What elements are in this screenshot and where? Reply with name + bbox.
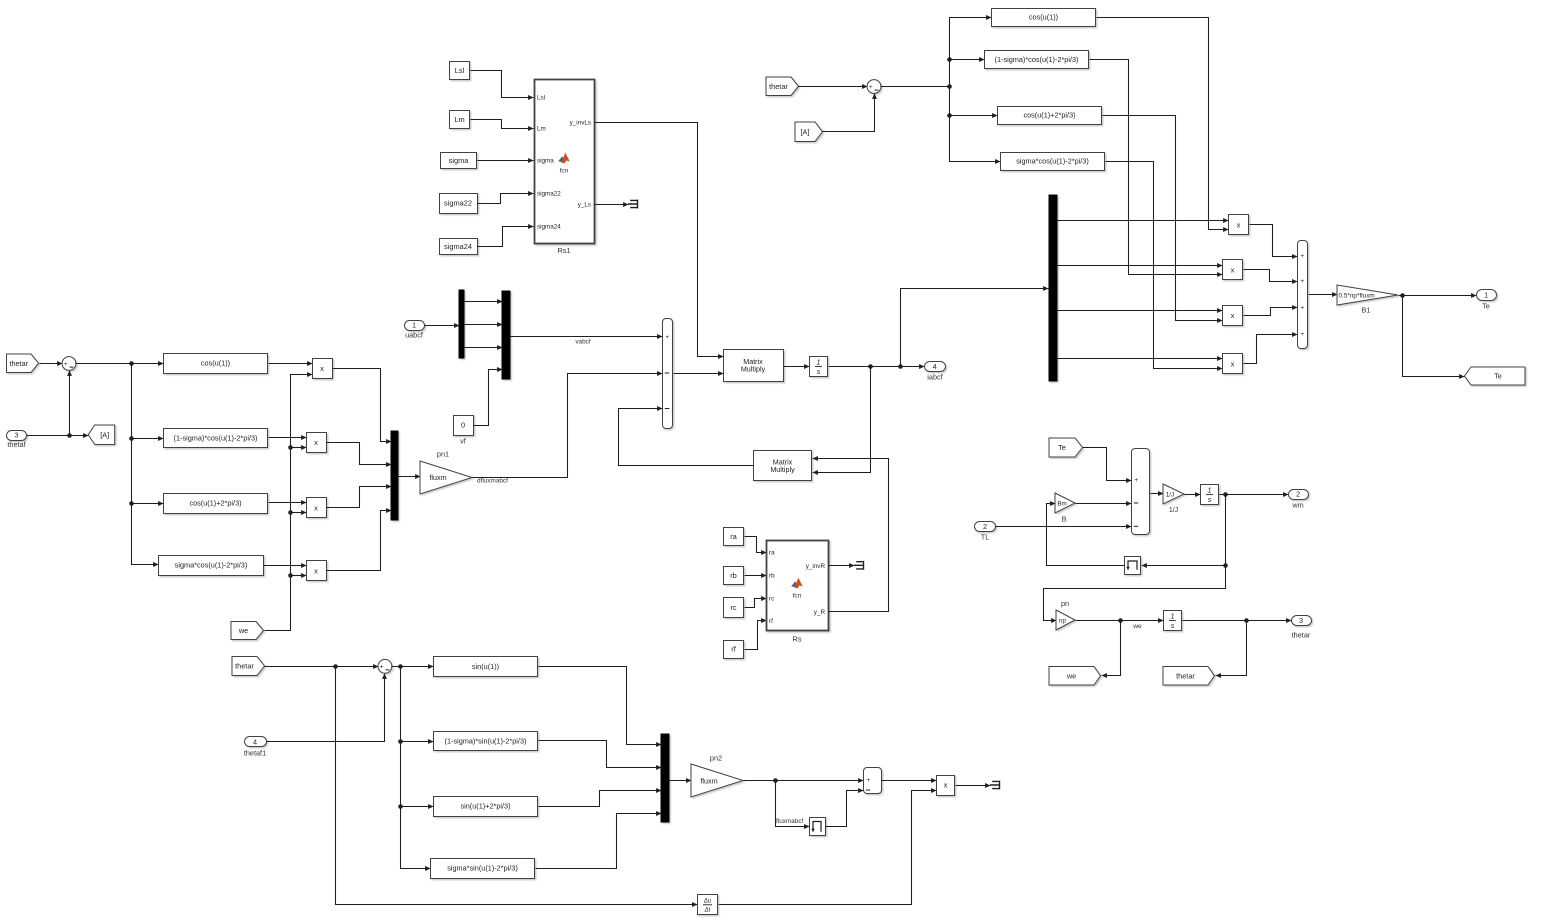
wire product3 to mux	[327, 487, 392, 508]
fcn block (1-sigma)*cos(u(1)-2*pi/3) (left)	[164, 429, 268, 448]
svg-text:uabcf: uabcf	[405, 331, 424, 340]
wire product2 to sum	[1244, 270, 1298, 282]
wire branch to row3	[132, 503, 164, 505]
svg-text:x: x	[1231, 359, 1235, 368]
wire product1 to sum	[1250, 225, 1298, 257]
wire sum to cos fcn rows	[881, 18, 992, 87]
wire sigma24 to Rs1	[478, 227, 534, 247]
sum block (4 plus inputs)	[1298, 241, 1308, 349]
wire memory to gain Bm	[1047, 504, 1125, 566]
wire sum to product	[882, 780, 937, 782]
wire MM1 to integrator	[784, 366, 810, 368]
sum block (bottom right, + -)	[864, 768, 882, 794]
svg-text:x: x	[1237, 220, 1241, 229]
wire cos row3 to product3	[269, 502, 307, 504]
svg-text:we: we	[1132, 623, 1142, 630]
sum block (center, + - -)	[663, 319, 673, 429]
svg-text:+: +	[1300, 253, 1304, 260]
svg-text:we: we	[1066, 671, 1076, 680]
wire branch to fcn rows 2-4	[950, 87, 1001, 162]
wire sigma*cos to product 4	[1106, 162, 1223, 369]
wire cos+2pi/3 to product 3	[1103, 116, 1223, 321]
wire demux out4 to product 4	[1058, 358, 1223, 360]
gain pn2 fluxm	[691, 764, 743, 797]
svg-text:1: 1	[1484, 291, 1488, 300]
svg-text:B: B	[1062, 515, 1067, 524]
wire memory to sum minus	[826, 791, 864, 827]
wire vf to mux	[474, 370, 503, 426]
inport 2 TL	[975, 522, 996, 532]
svg-text:y_R: y_R	[814, 609, 826, 616]
svg-text:sigma24: sigma24	[537, 224, 561, 231]
svg-text:thetar: thetar	[1292, 631, 1311, 640]
svg-text:sigma*cos(u(1)-2*pi/3): sigma*cos(u(1)-2*pi/3)	[1016, 157, 1089, 166]
wire branch to memory (fluxmabcf)	[776, 781, 810, 827]
svg-text:vf: vf	[460, 437, 467, 446]
svg-text:thetar: thetar	[9, 359, 28, 368]
wire we branch to product2	[291, 447, 307, 449]
svg-text:cos(u(1)+2*pi/3): cos(u(1)+2*pi/3)	[189, 499, 241, 508]
wire product2 to mux	[327, 443, 392, 465]
constant sigma22	[440, 194, 478, 214]
wire demux1 to mux	[465, 301, 503, 303]
svg-text:x: x	[1231, 265, 1235, 274]
wire rb to Rs	[745, 575, 767, 577]
wire sin row3 to mux	[539, 791, 662, 807]
fcn block cos(u(1)) (left)	[164, 354, 268, 374]
wire (1-sigma)cos to product 2	[1090, 60, 1223, 275]
svg-text:dfluxmabcf: dfluxmabcf	[477, 478, 508, 485]
fcn block sin(u(1)+2*pi/3)	[434, 797, 538, 817]
svg-text:y_invR: y_invR	[806, 563, 826, 570]
wire branch down to memory	[1142, 495, 1226, 566]
product block 2 (left)	[307, 433, 327, 453]
terminator for y_invR	[854, 561, 864, 570]
wire integrator to outport thetar	[1183, 620, 1292, 622]
wire mux to gain pn1	[399, 476, 421, 478]
product block 3 (left)	[307, 498, 327, 518]
gain np	[1056, 610, 1075, 630]
wire product4 to sum	[1244, 335, 1298, 364]
svg-text:np: np	[1059, 618, 1066, 625]
svg-text:cos(u(1)+2*pi/3): cos(u(1)+2*pi/3)	[1023, 111, 1075, 120]
wire thetaf to goto [A]	[27, 435, 89, 437]
wire sum to sin row1	[392, 666, 434, 668]
wire sum to cos row1	[76, 363, 164, 365]
svg-text:fluxm: fluxm	[700, 776, 717, 785]
svg-text:+: +	[665, 334, 669, 341]
svg-text:s: s	[1171, 621, 1175, 630]
svg-text:+: +	[380, 664, 384, 671]
goto tag we	[1049, 667, 1101, 686]
svg-text:thetaf1: thetaf1	[244, 749, 266, 758]
svg-text:sin(u(1)+2*pi/3): sin(u(1)+2*pi/3)	[460, 802, 510, 811]
wire branch to goto thetar	[1216, 621, 1247, 676]
wire ra to Rs	[745, 537, 767, 553]
svg-text:vabcf: vabcf	[575, 339, 590, 346]
constant rf	[724, 641, 744, 659]
svg-text:cos(u(1)): cos(u(1))	[201, 359, 230, 368]
wire we branch to goto we	[1102, 621, 1121, 676]
wire branch down to sin rows	[401, 667, 431, 869]
wire integrator to outport wm	[1220, 494, 1289, 496]
svg-text:sigma*sin(u(1)-2*pi/3): sigma*sin(u(1)-2*pi/3)	[447, 864, 518, 873]
svg-text:+: +	[869, 84, 873, 91]
product block 2 (right)	[1223, 260, 1243, 280]
svg-text:0: 0	[461, 421, 465, 430]
svg-text:Δu: Δu	[703, 899, 712, 905]
svg-text:x: x	[314, 566, 318, 575]
fcn block cos(u(1)+2*pi/3) (top right)	[998, 107, 1102, 125]
wire we branch to product4	[291, 575, 307, 577]
wire Bm to sum	[1076, 503, 1132, 505]
svg-text:pn: pn	[1061, 599, 1069, 608]
svg-text:thetar: thetar	[1176, 671, 1195, 680]
goto tag [A] (left)	[88, 425, 115, 445]
wire sin row2 to mux	[539, 741, 662, 768]
svg-text:Lsl: Lsl	[455, 66, 465, 75]
svg-text:Te: Te	[1482, 302, 1490, 311]
wire y_invLs to Matrix Multiply	[595, 123, 724, 357]
wire np to integrator (we)	[1076, 620, 1164, 622]
svg-text:rb: rb	[769, 573, 775, 580]
wire MM2 output to sum input 3	[619, 409, 754, 466]
svg-text:(1-sigma)*cos(u(1)-2*pi/3): (1-sigma)*cos(u(1)-2*pi/3)	[995, 55, 1079, 64]
wire y_Ls to terminator	[595, 204, 629, 206]
wire demux2 to mux	[465, 324, 503, 326]
wire branch to row 2	[950, 59, 985, 61]
svg-text:s: s	[1208, 495, 1212, 504]
svg-text:pn2: pn2	[710, 754, 722, 763]
svg-text:s: s	[817, 367, 821, 376]
terminator for y_Ls	[628, 200, 638, 209]
fcn block sigma*cos(u(1)-2*pi/3) (top right)	[1001, 153, 1105, 171]
wire cos row1 to product1	[269, 363, 313, 365]
fcn block sin(u(1))	[434, 657, 538, 677]
svg-text:0.5*np*fluxm: 0.5*np*fluxm	[1339, 292, 1375, 299]
wire 1/J to integrator	[1185, 494, 1201, 496]
svg-text:sin(u(1)): sin(u(1))	[472, 662, 499, 671]
svg-text:4: 4	[253, 738, 257, 747]
constant rc	[724, 598, 744, 618]
constant sigma24	[440, 239, 478, 255]
svg-text:3: 3	[14, 431, 18, 440]
sum block (bottom)	[378, 659, 392, 673]
wire sin row1 to mux	[539, 667, 662, 745]
wire rc to Rs	[745, 599, 767, 608]
svg-text:x: x	[314, 438, 318, 447]
svg-text:iabcf: iabcf	[927, 373, 943, 382]
svg-text:Multiply: Multiply	[770, 465, 795, 474]
constant sigma	[441, 153, 477, 169]
wire thetaf branch up to sum	[69, 371, 71, 436]
outport 2 wm	[1289, 490, 1309, 500]
gain Bm	[1055, 493, 1075, 513]
wire vabcf to sum	[511, 336, 663, 338]
svg-text:fluxmabcf: fluxmabcf	[776, 818, 804, 825]
demux (right)	[1049, 195, 1057, 381]
product block 3 (right)	[1223, 306, 1243, 326]
wire cos row2 to product2	[269, 437, 307, 439]
svg-text:1: 1	[1171, 611, 1175, 620]
wire dfluxmabcf to sum	[473, 374, 663, 478]
svg-text:sigma: sigma	[449, 156, 470, 165]
wire thetar to sum	[40, 363, 63, 365]
wire product3 to sum	[1244, 308, 1298, 316]
svg-text:1: 1	[412, 321, 416, 330]
terminator (bottom)	[990, 781, 1000, 790]
wire demux out2 to product 2	[1058, 265, 1223, 267]
wire branch to goto Te	[1403, 296, 1465, 377]
goto tag thetar	[1163, 667, 1215, 686]
wire branch down to rows 2-4	[132, 364, 159, 565]
wire cos row4 to product4	[264, 565, 307, 567]
integrator 1/s (thetar)	[1164, 611, 1182, 631]
svg-text:2: 2	[983, 522, 987, 531]
svg-text:x: x	[320, 364, 324, 373]
constant Lsl	[450, 62, 470, 80]
sum block (left)	[62, 357, 76, 371]
product block (bottom)	[937, 776, 955, 796]
wire branch down to gain np	[1044, 566, 1226, 621]
svg-text:Te: Te	[1494, 372, 1502, 381]
svg-text:2: 2	[1296, 490, 1300, 499]
product block 1 (right)	[1229, 215, 1249, 235]
wire mux to gain pn2	[670, 780, 692, 782]
svg-text:Te: Te	[1058, 443, 1066, 452]
gain B1 0.5*np*fluxm	[1337, 285, 1398, 305]
wire demux3 to mux	[465, 347, 503, 349]
mux (bottom)	[661, 734, 669, 822]
wire Te to sum	[1083, 448, 1132, 481]
wire [A] to sum	[823, 94, 875, 132]
svg-text:sigma24: sigma24	[444, 242, 472, 251]
wire y_R to MM2 input 1	[813, 459, 889, 612]
fcn block cos(u(1)) (top right)	[992, 9, 1096, 27]
wire product1 to mux	[333, 369, 392, 442]
svg-text:rf: rf	[769, 618, 773, 625]
svg-text:fluxm: fluxm	[429, 473, 446, 482]
svg-text:1: 1	[1208, 485, 1212, 494]
MATLAB Function block Rs	[767, 541, 829, 631]
wire y_invR to terminator	[829, 565, 855, 567]
constant rb	[724, 567, 744, 585]
svg-text:+: +	[866, 777, 870, 784]
integrator 1/s (center)	[810, 357, 828, 377]
svg-text:B1: B1	[1362, 306, 1371, 315]
fcn block (1-sigma)*sin(u(1)-2*pi/3)	[434, 732, 538, 751]
wire branch to sin row2	[401, 741, 434, 743]
product block 1 (left)	[313, 359, 333, 379]
svg-text:y_Ls: y_Ls	[578, 202, 591, 209]
svg-text:ra: ra	[730, 532, 737, 541]
svg-text:wm: wm	[1291, 501, 1303, 510]
memory block (wm feedback)	[1125, 557, 1141, 575]
svg-text:thetar: thetar	[769, 82, 788, 91]
integrator 1/s (wm)	[1201, 485, 1219, 505]
svg-text:sigma*cos(u(1)-2*pi/3): sigma*cos(u(1)-2*pi/3)	[175, 561, 248, 570]
svg-text:x: x	[1231, 311, 1235, 320]
svg-text:rb: rb	[730, 571, 737, 580]
mux (left)	[391, 431, 398, 520]
svg-text:Bm: Bm	[1057, 501, 1066, 508]
svg-text:+: +	[1300, 278, 1304, 285]
svg-text:we: we	[238, 626, 248, 635]
svg-text:pn1: pn1	[437, 450, 449, 459]
inport 3 thetaf	[7, 431, 27, 441]
wire thetar to sum (bottom)	[265, 666, 379, 668]
product block 4 (right)	[1223, 354, 1243, 374]
from tag thetar (top right)	[766, 77, 799, 96]
inport 1 uabcf	[405, 321, 425, 331]
svg-text:1: 1	[817, 357, 821, 366]
svg-text:1/J: 1/J	[1166, 492, 1174, 499]
wire B1 to outport Te	[1399, 295, 1477, 297]
wire we up to products	[265, 375, 313, 631]
wire derivative to product	[719, 791, 937, 905]
constant Lm	[450, 111, 470, 129]
from tag Te	[1049, 438, 1083, 457]
wire sum to Matrix Multiply	[674, 373, 724, 375]
memory block (fluxmabcf)	[810, 818, 826, 836]
goto tag Te	[1465, 367, 1526, 385]
sum block (Te - Bm - TL)	[1132, 449, 1150, 535]
svg-text:y_invLs: y_invLs	[570, 120, 591, 127]
sum block (top right)	[867, 80, 881, 94]
wire uabcf to demux	[425, 325, 460, 327]
from tag we (left)	[231, 622, 264, 640]
wire branch to row 3	[950, 115, 998, 117]
svg-text:x: x	[314, 503, 318, 512]
wire thetar branch to derivative	[336, 667, 698, 905]
Matrix Multiply block 2 (flipped)	[754, 451, 812, 481]
svg-text:TL: TL	[981, 533, 990, 542]
product block 4 (left)	[307, 561, 327, 581]
wire fluxm to sum (bottom right)	[744, 780, 864, 782]
svg-text:fcn: fcn	[793, 593, 802, 600]
svg-text:+: +	[64, 361, 68, 368]
wire TL to sum	[996, 526, 1132, 528]
wire we branch to product3	[291, 512, 307, 514]
svg-text:1/J: 1/J	[1169, 507, 1178, 514]
outport 3 thetar	[1292, 616, 1312, 626]
svg-text:fcn: fcn	[560, 168, 569, 175]
from tag thetar (left)	[7, 354, 39, 373]
wire thetar to sum	[799, 86, 868, 88]
wire sigma22 to Rs1	[478, 194, 534, 204]
svg-text:thetar: thetar	[235, 662, 254, 671]
fcn block sigma*cos(u(1)-2*pi/3) (left)	[159, 556, 264, 576]
svg-text:+: +	[1134, 477, 1138, 484]
wire sin row4 to mux	[536, 814, 662, 869]
Matrix Multiply block 1	[724, 350, 784, 382]
wire sum to gain 1/J	[1151, 493, 1164, 495]
outport 4 iabcf	[925, 362, 946, 372]
constant ra	[724, 528, 744, 546]
svg-text:x: x	[944, 781, 948, 790]
inport 4 thetaf1	[245, 737, 267, 747]
wire integrator to outport iabcf	[829, 366, 925, 368]
svg-text:rc: rc	[730, 603, 736, 612]
wire product to terminator	[956, 785, 991, 787]
svg-text:sigma22: sigma22	[444, 199, 472, 208]
wire thetaf1 to sum (bottom)	[267, 674, 385, 742]
demux (center)	[459, 290, 464, 358]
svg-text:+: +	[1300, 331, 1304, 338]
wire Lsl to Rs1	[471, 71, 534, 98]
svg-text:[A]: [A]	[100, 430, 109, 439]
wire branch to row2	[132, 438, 164, 440]
from tag thetar (bottom)	[232, 657, 265, 676]
svg-text:Multiply: Multiply	[741, 365, 766, 374]
svg-text:thetaf: thetaf	[7, 440, 26, 449]
svg-text:3: 3	[1299, 616, 1303, 625]
wire demux out3 to product 3	[1058, 310, 1223, 312]
svg-text:ra: ra	[769, 550, 775, 557]
wire branch to sin row3	[401, 806, 434, 808]
wire sum to gain B1	[1309, 294, 1338, 296]
svg-text:[A]: [A]	[801, 127, 810, 136]
wire branch down to MM2 input 2	[813, 367, 871, 473]
wire iabcf branch to demux	[901, 289, 1049, 367]
svg-text:rc: rc	[769, 596, 774, 603]
svg-text:sigma: sigma	[537, 158, 554, 165]
svg-text:sigma22: sigma22	[537, 191, 561, 198]
wire demux out1 to product 1	[1058, 220, 1229, 222]
wire sigma to Rs1	[478, 160, 534, 162]
derivative block du/dt	[698, 895, 718, 915]
svg-text:Lm: Lm	[454, 115, 464, 124]
svg-text:(1-sigma)*cos(u(1)-2*pi/3): (1-sigma)*cos(u(1)-2*pi/3)	[174, 433, 258, 442]
svg-text:Lsl: Lsl	[537, 95, 545, 102]
svg-text:cos(u(1)): cos(u(1))	[1029, 13, 1058, 22]
outport 1 Te	[1477, 290, 1497, 301]
MATLAB Function block Rs1	[535, 80, 595, 244]
mux (center)	[502, 291, 510, 379]
svg-text:4: 4	[933, 362, 937, 371]
svg-text:Δt: Δt	[704, 908, 711, 914]
fcn block cos(u(1)+2*pi/3) (left)	[164, 494, 268, 514]
svg-text:+: +	[1300, 305, 1304, 312]
fcn block sigma*sin(u(1)-2*pi/3)	[431, 859, 535, 879]
from tag [A] (top right)	[795, 122, 823, 142]
wire cos(u(1)) to product 1	[1097, 18, 1229, 230]
fcn block (1-sigma)*cos(u(1)-2*pi/3) (top right)	[985, 51, 1089, 69]
constant vf 0	[454, 416, 474, 436]
wire product4 to mux	[327, 511, 392, 571]
svg-text:(1-sigma)*sin(u(1)-2*pi/3): (1-sigma)*sin(u(1)-2*pi/3)	[445, 736, 527, 745]
wire rf to Rs	[745, 621, 767, 650]
svg-text:Rs1: Rs1	[557, 246, 570, 255]
svg-text:Rs: Rs	[792, 635, 801, 644]
svg-text:Lm: Lm	[537, 126, 546, 133]
wire Lm to Rs1	[471, 120, 534, 129]
gain pn1 fluxm	[420, 461, 472, 494]
gain 1/J	[1163, 484, 1184, 504]
